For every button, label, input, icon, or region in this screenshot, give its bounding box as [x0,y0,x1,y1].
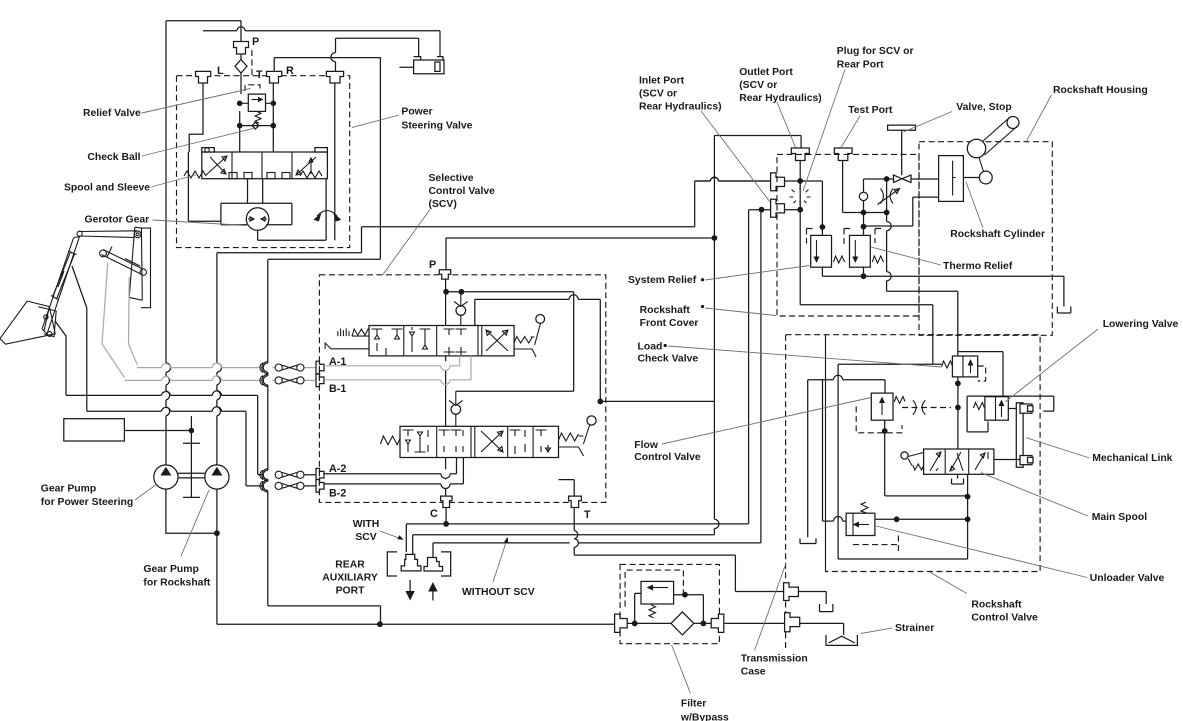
leader transmission case [755,564,786,651]
wire unloader supply [823,380,847,521]
svg-text:WITHOUT SCV: WITHOUT SCV [462,587,535,598]
loader boom pivots [77,231,82,236]
relief valve dashed pilot box [245,85,260,91]
svg-text:WITH: WITH [353,519,380,530]
hose gray A-1 [129,277,138,365]
leader power steering valve [352,115,399,128]
return line hops over coupler rows [267,260,269,606]
svg-text:SCV: SCV [355,532,376,543]
loader bucket [0,301,55,344]
coupler row A-1 gray line [137,367,316,369]
loader mast pivot [134,231,141,238]
wire B-1 into spool [324,356,471,384]
wire L-port to steering cylinder top [203,27,440,57]
boom spool lever [514,315,545,358]
housing drain tank [1057,307,1070,314]
svg-text:REAR: REAR [335,560,365,571]
svg-text:w/Bypass: w/Bypass [680,713,729,721]
coupler row B-1 gray line [124,379,316,381]
wire bowtie feed [864,178,939,180]
rockshaft arm small circle [1007,117,1019,129]
svg-text:Rockshaft: Rockshaft [971,600,1022,611]
relief spring [255,111,261,123]
bucket spool left spring [380,436,400,445]
wire reservoir to shaft [124,430,191,432]
wire A-1 into spool [324,356,460,371]
T return hops [574,531,578,548]
wire L column [189,83,203,152]
svg-text:Control Valve: Control Valve [634,452,701,463]
check valve bucket [449,391,463,426]
svg-text:Rockshaft: Rockshaft [640,305,691,316]
wire with-scv line 3 [433,210,761,559]
filter bypass dashed inner box [625,570,683,606]
flow control spring [894,397,905,404]
filter element diamond [671,612,694,635]
unloader dashed pilot [853,536,898,552]
leader with-scv arrow [380,531,399,538]
load check spring [942,361,953,368]
wire SCV to flow control [600,400,714,402]
wire R2-port to cylinder [331,38,419,71]
leader spool and sleeve [151,175,197,188]
plug burst symbol [790,187,811,205]
steering cylinder [399,57,444,74]
bypass spring [649,605,656,618]
svg-text:Check Ball: Check Ball [87,152,140,163]
system relief spring [834,256,845,263]
svg-text:(SCV or: (SCV or [739,80,777,91]
coupler A-1 circles and cross [275,364,304,371]
rockshaft cylinder [939,156,981,202]
leader check ball [142,128,255,156]
leader without-scv arrow [493,541,507,582]
wire P gallery down center [445,279,447,496]
wire C line [406,210,748,552]
main spool body [924,449,994,474]
svg-text:B-1: B-1 [329,383,346,395]
wire outlet stem [799,161,801,305]
svg-text:Thermo Relief: Thermo Relief [943,261,1013,272]
orifice compensator circle [859,192,867,200]
junction dots check ball [237,123,243,129]
port A-2 flange [316,468,324,481]
down arrow [409,580,411,591]
svg-text:Plug for SCV or: Plug for SCV or [837,46,914,57]
svg-text:Rockshaft Housing: Rockshaft Housing [1053,85,1148,96]
hose to A-2 [55,321,66,395]
inlet port lower flange [771,199,785,217]
leader lowering valve [1005,329,1098,402]
hose gray B-1 [102,263,124,378]
svg-text:Spool and Sleeve: Spool and Sleeve [64,183,150,194]
spool and sleeve body [202,148,328,179]
svg-text:Control Valve: Control Valve [971,613,1038,624]
rockshaft front cover dashed box [777,154,919,316]
valve stop tee bar [888,125,916,130]
svg-text:P: P [252,36,259,48]
wire unloader line [875,518,968,520]
bucket spool body [400,426,559,457]
mechanical link bar [1016,403,1033,468]
SCV P port [439,270,450,279]
orifice symbol pair [913,400,926,415]
leader main spool [981,473,1088,516]
coupler A-2 claw [260,469,268,481]
SCV T port [569,496,582,507]
strainer basket [826,635,857,646]
unloader spring [861,502,868,513]
bypass valve [641,581,674,604]
engine shaft [183,416,200,497]
check diamond under P [235,54,247,73]
svg-text:Valve, Stop: Valve, Stop [956,102,1011,113]
wire with-scv line 2 [413,535,715,557]
wire R column [272,83,274,152]
svg-text:(SCV): (SCV) [429,199,457,210]
wire relief drain column [807,380,809,538]
wire outlet column to control valve [800,305,933,365]
leader rockshaft control valve [930,572,967,593]
wire main spool to link [994,409,1020,460]
load check dashed pilot [978,366,986,381]
svg-text:L: L [217,65,224,77]
port B-2 flange [316,480,324,493]
transmission case dashed line [785,335,787,648]
leader load check [668,346,942,367]
system relief valve [811,235,832,267]
leader relief valve [142,89,251,114]
svg-text:R: R [286,65,294,77]
wire control valve left column [838,364,968,559]
leader gear pump 1 [135,484,157,500]
leader flow control [662,398,871,445]
svg-text:Front Cover: Front Cover [640,318,699,329]
gear pump for power steering [154,465,178,489]
outlet port [791,148,809,161]
wire lowering valve top [958,352,1003,397]
rockshaft arm big circle [967,139,985,157]
wire T port riser [559,480,575,497]
svg-text:Selective: Selective [429,173,474,184]
power steering valve dashed box [177,76,350,248]
svg-text:Strainer: Strainer [895,623,934,634]
pump coupling [178,473,205,478]
rear aux port 2 [424,558,443,572]
svg-text:PORT: PORT [336,586,366,597]
leader thermo relief [871,247,941,265]
svg-text:Test Port: Test Port [848,105,893,116]
svg-text:Check Valve: Check Valve [638,354,699,365]
svg-text:Inlet Port: Inlet Port [639,76,685,87]
wire main spool bottom column [967,474,969,559]
wire valve stop stem [901,130,903,175]
coupler B-2 circles and cross [275,482,316,489]
leader front cover [705,308,776,316]
leader rockshaft cylinder [966,182,983,228]
rockshaft control valve dashed box [786,335,1041,572]
boom actuator comb [338,329,349,337]
loader boom arm [42,236,80,334]
wire upper port drain [798,592,833,612]
main spool lever [901,452,924,470]
relief pilot dashed bits [807,229,882,246]
wire filter internals [627,622,711,624]
coupler B-2 claw [260,480,268,492]
wire to boom check valve [446,292,574,391]
leader gear pump 2 [181,490,209,556]
pump suction wires [166,489,615,624]
wire test port stem [843,161,887,213]
unloader valve [846,513,875,535]
wire thermo relief top column [863,179,865,235]
wire T return [574,508,783,592]
svg-text:Gear Pump: Gear Pump [41,484,96,495]
loader link plate [38,307,56,337]
bypass right link [674,595,704,624]
rear aux port 1 [401,554,421,571]
SCV C port [441,496,452,507]
wire boom right riser [475,295,601,402]
loader top link [80,231,138,238]
filter right port [711,614,724,632]
inlet port upper flange [771,173,785,191]
wire orifice bypass to cylinder [864,197,939,226]
wire inlet lower line [749,209,801,211]
gerotor loop wires [221,179,292,225]
leader scv [383,210,430,275]
loader mast [129,227,142,300]
check ball [240,122,274,129]
svg-text:Lowering Valve: Lowering Valve [1103,319,1179,330]
rockshaft arm links [979,118,1018,172]
wire riser x714 [714,136,719,535]
svg-text:Outlet Port: Outlet Port [739,67,793,78]
wire loader to B-2 couplers [87,411,263,486]
steering wheel arrows [313,211,341,222]
relief valve R1 [240,94,274,111]
svg-text:Power: Power [401,107,432,118]
check valve boom [454,292,468,326]
leader test port [841,116,860,148]
SCV dashed box [319,275,605,503]
leader outlet port [777,102,796,148]
leader filter [672,645,691,693]
svg-text:T: T [584,509,591,521]
filter dashed box [620,564,719,643]
load check valve [952,356,977,377]
spool left spring [184,171,206,178]
svg-text:C: C [430,508,438,520]
leader strainer [861,628,892,634]
leader plug [803,70,845,192]
svg-text:Gerotor Gear: Gerotor Gear [85,215,150,226]
rockshaft housing dashed box [919,142,1052,336]
drain tank symbol [800,539,816,544]
stop valve bowtie [894,175,912,182]
svg-text:Transmission: Transmission [741,654,808,665]
svg-text:Rear Port: Rear Port [837,60,884,71]
leader mechanical link [1026,438,1089,458]
test port [834,148,852,161]
svg-text:T: T [256,69,263,81]
hop arcs on pump supply line [166,363,171,416]
loader tilt cylinder [102,247,144,275]
svg-text:for Rockshaft: for Rockshaft [143,578,211,589]
svg-text:Control Valve: Control Valve [429,186,496,197]
rear aux left bracket [387,552,397,576]
wire flow control supply [808,375,885,393]
flow control valve [871,393,893,420]
svg-text:System Relief: System Relief [628,275,697,286]
wire supply to load check [838,363,942,365]
wire rockshaft pump supply to inlet [217,177,771,253]
wire lowering valve pilot loop and hook [967,396,1054,432]
svg-text:Gear Pump: Gear Pump [143,564,198,575]
leader gerotor gear [153,220,247,226]
svg-text:Flow: Flow [634,440,659,451]
boom spool body [369,326,514,356]
main spool drain [952,474,964,484]
wire power steering pump supply [165,21,167,465]
port L [196,71,211,83]
svg-text:Main Spool: Main Spool [1092,512,1148,523]
rockshaft crank circle [979,171,992,184]
svg-text:B-2: B-2 [329,488,346,500]
svg-text:Rear Hydraulics): Rear Hydraulics) [739,93,822,104]
coupler B-1 circles and cross [275,377,304,384]
svg-text:Mechanical Link: Mechanical Link [1092,453,1172,464]
gerotor bottom return [258,179,327,241]
filter left port [615,614,628,632]
leader inlet port [701,111,770,202]
flow control dashed pilot [856,406,951,432]
wire stop valve column [887,179,958,356]
transmission lower port [785,613,800,632]
bypass left link [635,593,641,623]
svg-text:Steering Valve: Steering Valve [401,121,472,132]
wire P supply riser [446,238,714,270]
boom actuator spring [352,329,368,337]
thermo relief spring [872,256,883,263]
svg-text:P: P [429,259,436,271]
boom spool left actuator [325,336,369,349]
leader valve stop [904,112,953,133]
gerotor gear circle [246,208,269,231]
hose to B-2 [72,266,87,411]
svg-text:Case: Case [741,667,766,678]
port B-1 flange [316,374,324,387]
lowering valve [985,397,1008,421]
wire filter out to strainer [724,623,844,635]
wire R-port to right box edge [274,58,380,260]
reservoir block [64,419,125,441]
variable orifice symbol [878,189,900,205]
wire flow control bottom [885,420,968,496]
svg-text:AUXILIARY: AUXILIARY [322,573,378,584]
svg-text:Unloader Valve: Unloader Valve [1090,573,1165,584]
bucket spool lever [559,416,597,456]
wire P column into valve [240,73,241,152]
rear aux right bracket [441,552,451,576]
svg-text:Relief Valve: Relief Valve [83,108,141,119]
wire loader to A-2 couplers [66,395,263,474]
up arrow [432,592,434,601]
wire A-2 into spool [324,458,457,479]
wire inlet line with hop [695,178,823,236]
wire box bottom return [268,258,381,260]
svg-text:Load: Load [638,342,663,353]
leader rockshaft housing [1026,95,1051,142]
svg-text:(SCV or: (SCV or [639,89,677,100]
spool right spring [300,171,322,178]
leader system relief [705,266,809,281]
leader unloader valve [876,526,1087,578]
svg-text:Filter: Filter [681,699,706,710]
loader lift cylinder [51,251,77,300]
wire relief bottoms to drain [822,267,1064,306]
lowering valve spring [974,403,985,410]
wire outlet port feed top [714,136,801,149]
wire B-2 into spool [324,458,463,489]
spool left drain [188,152,221,221]
wire load check column [957,377,959,449]
svg-text:for Power Steering: for Power Steering [41,497,133,508]
coupler A-2 circles and cross [275,471,316,478]
port R [267,71,282,83]
wire rockshaft pump riser [216,253,218,465]
loader mast bracket [141,228,151,308]
dashed plug line by P column [251,50,253,76]
return wire to filter line [268,606,381,624]
svg-text:Rear Hydraulics): Rear Hydraulics) [639,102,722,113]
junction dots P gallery [443,289,449,295]
port R2 [326,71,343,83]
R2 column [334,83,336,240]
transmission upper port [784,583,799,601]
coupler B-1 claw [260,374,268,386]
svg-text:Rockshaft Cylinder: Rockshaft Cylinder [950,229,1045,240]
port P (steering) [234,42,249,55]
junction dots relief [237,101,243,107]
power steering valve outer supply wires [166,21,241,42]
coupler A-1 claw [260,362,268,374]
thermo relief valve [850,235,871,267]
gear pump for rockshaft [205,465,229,489]
port A-1 flange [316,361,324,374]
